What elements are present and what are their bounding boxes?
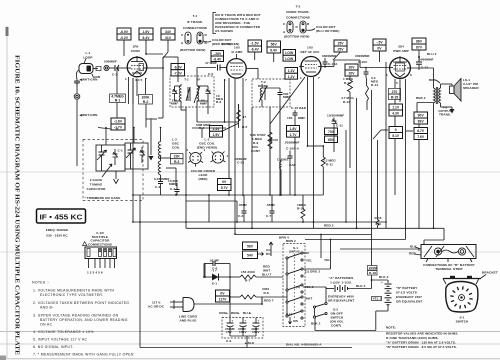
svg-text:▸ BLK: ▸ BLK (244, 341, 255, 345)
vertical wire x186 T1 return (181, 104, 187, 228)
svg-text:.05MF: .05MF (238, 203, 247, 207)
vertical wire x235 V2 cathode (234, 79, 236, 235)
svg-text:-: - (349, 281, 350, 285)
notes block bottom left (32, 281, 134, 357)
svg-text:WHT: WHT (263, 269, 270, 273)
svg-text:-1.7V: -1.7V (114, 126, 123, 130)
voltage box pair 25V (333, 40, 347, 60)
wire switch commons (286, 259, 288, 315)
svg-text:(BOTTOM VIEW): (BOTTOM VIEW) (284, 35, 309, 39)
svg-text:NOTE:: NOTE: (386, 326, 396, 330)
capacitor C-10A 6800MMF (322, 54, 338, 68)
T-1 connector lug B (197, 32, 208, 45)
capacitor .0039MF label (234, 157, 247, 165)
label S-2 on-off switch (330, 308, 344, 328)
note bracket IF trans (213, 13, 261, 34)
voltage box pair 1.8V (287, 126, 300, 138)
B battery label (396, 286, 423, 304)
label RED WHT (263, 265, 270, 273)
choke and cap labels (277, 158, 296, 175)
diode E-1 rectifier (203, 269, 230, 286)
vertical wire x163 screen (158, 58, 164, 118)
bus wire y207 (186, 194, 238, 223)
resistor R-2 100K boxed (139, 95, 153, 105)
label bottom view T-2 (284, 35, 309, 39)
label AC DC arrow (266, 242, 273, 256)
svg-text:6: 6 (410, 73, 412, 77)
scan bottom edge (0, 358, 500, 360)
wire loop lead down (75, 70, 79, 166)
A battery brand label (328, 295, 355, 303)
voltage box pair V4 grid (373, 39, 386, 62)
svg-text:+: + (333, 281, 335, 285)
long vertical wire x357 (356, 98, 358, 229)
svg-text:89V: 89V (418, 120, 425, 124)
svg-text:1.6V: 1.6V (143, 30, 151, 34)
capacitor C-2 500MMF (104, 60, 126, 77)
speaker LS-1 (441, 78, 480, 101)
wire V2 plate to T2 (247, 68, 258, 79)
T-2 connector lug A (283, 21, 293, 34)
svg-text:RESISTOR VALUES ARE INDICAT: RESISTOR VALUES ARE INDICATED IN OHMS. (386, 332, 458, 336)
scan fold line bottom (0, 343, 500, 345)
resistor R-3 22K boxed (168, 154, 183, 164)
svg-text:AS SHOWN: AS SHOWN (215, 29, 233, 33)
svg-text:C-7: C-7 (266, 214, 271, 218)
svg-text:20V: 20V (348, 66, 355, 70)
gang section 1 loop (96, 145, 125, 171)
svg-text:56V: 56V (247, 245, 254, 249)
svg-text:BLU▸: BLU▸ (243, 311, 252, 315)
vertical wire x295 diode load (294, 120, 296, 196)
svg-text:C-6: C-6 (238, 214, 243, 218)
svg-text:C-11: C-11 (336, 124, 343, 128)
resistor R-7 150-2000 (230, 270, 283, 283)
power chassis box left edge (139, 195, 141, 348)
svg-text:OR EQUIVALENT: OR EQUIVALENT (396, 300, 423, 304)
vertical wire x229 V2 pin (228, 78, 230, 196)
antenna loop L-1 (79, 51, 93, 74)
gang section 2 trimmer (140, 147, 145, 163)
svg-text:MMF: MMF (200, 102, 207, 106)
svg-text:PWR AMP: PWR AMP (393, 49, 409, 53)
svg-text:67-1/2 VOLTS: 67-1/2 VOLTS (396, 291, 417, 295)
osc coil end views label (197, 138, 218, 150)
output transformer T-3 (434, 84, 452, 117)
svg-text:COIL: COIL (172, 146, 180, 150)
diode transformer T-2 dashed box (252, 79, 290, 107)
voltage box pair top b (139, 28, 163, 55)
wire V4 cathode down (400, 79, 406, 131)
gang top feed wires (105, 127, 135, 145)
svg-text:TUNING: TUNING (90, 183, 103, 187)
capacitor C-4 (170, 183, 180, 195)
switch link dashed (294, 250, 296, 318)
power chassis box bottom edge (140, 347, 352, 349)
wire det out to V4 (322, 60, 389, 68)
long vertical wire x437 down (433, 103, 435, 228)
node terminal (104, 65, 109, 70)
wire switch to bus (261, 277, 283, 305)
voltage box pair -1.6V left (98, 118, 125, 130)
voltage box pair LOW (283, 50, 296, 62)
svg-text:0V: 0V (222, 180, 227, 184)
svg-text:CONNECTIONS: CONNECTIONS (286, 16, 310, 20)
svg-text:CONNECTIONS: CONNECTIONS (183, 26, 207, 30)
resistor R-5 label (237, 104, 248, 129)
svg-text:BRN 2: BRN 2 (286, 239, 296, 243)
svg-text:+: + (245, 319, 247, 323)
svg-text:4. VOLTAGE TOLERANCE ± 10%: 4. VOLTAGE TOLERANCE ± 10% (33, 330, 94, 334)
wire V1 plate to T1 (148, 57, 178, 82)
switch contact 5 (286, 310, 303, 323)
svg-text:C-10A-A: C-10A-A (286, 147, 300, 151)
wire B battery return (315, 297, 388, 331)
svg-text:R-2: R-2 (143, 100, 149, 104)
svg-text:T-2: T-2 (296, 5, 301, 9)
svg-text:1.5V: 1.5V (213, 133, 221, 137)
staircase wire b (340, 249, 419, 251)
svg-text:* TRIMMERS ON GANG: * TRIMMERS ON GANG (85, 196, 121, 200)
svg-text:C-10: C-10 (237, 161, 244, 165)
label BRN (429, 78, 440, 83)
svg-text:SWITCH: SWITCH (456, 320, 469, 324)
oscillator coil L-2 (158, 128, 180, 182)
T-1 connector lug A (181, 32, 191, 45)
voltage box pair 70V (325, 128, 338, 143)
resistor R-14 3.3MEG (366, 76, 379, 110)
terminal lug (74, 94, 80, 100)
svg-text:FIGURE 10. SCHEMATIC DIAGRAM O: FIGURE 10. SCHEMATIC DIAGRAM OF HS-224 U… (14, 55, 21, 355)
svg-text:15V: 15V (226, 330, 233, 334)
wire C8 junctions (204, 264, 231, 318)
vertical wire x280 T2 cap return (279, 107, 281, 196)
svg-text:1: 1 (300, 76, 302, 80)
osc coil end view right (211, 152, 229, 164)
wire plug to switch (194, 297, 262, 304)
svg-text:6. NO SIGNAL INPUT.: 6. NO SIGNAL INPUT. (33, 345, 74, 349)
label bottom view T-1 (180, 48, 205, 52)
wire A battery to B battery (368, 235, 389, 289)
long vertical wire x420 heater (418, 124, 420, 229)
tube V1 1R5 converter (125, 45, 148, 83)
svg-text:C-12: C-12 (421, 66, 428, 70)
vertical wire x133 V1 cathode (132, 78, 134, 223)
wire T1 to V2 grid (197, 68, 216, 84)
terminal strip caption (423, 263, 476, 271)
label C-1D multiple capacitor connections (83, 231, 112, 246)
S-2 on-off switch contact (311, 312, 327, 325)
svg-text:YEL 2: YEL 2 (373, 297, 382, 301)
svg-text:-6.0V: -6.0V (120, 30, 129, 34)
T-1 primary trimmer cap 130MMF (171, 86, 181, 106)
voltage box pair top a (117, 28, 131, 56)
svg-text:86V: 86V (416, 40, 423, 44)
svg-text:CONT): CONT) (331, 324, 341, 328)
labels ORG RED BLK above C-9 (219, 311, 252, 315)
svg-text:1U5: 1U5 (234, 46, 240, 50)
label BLU 2 (427, 52, 437, 56)
switch S-1 wafer dashed (283, 239, 305, 327)
voltage box pair 56V bold (243, 242, 264, 259)
svg-text:LOOP: LOOP (83, 56, 92, 60)
svg-text:RED▸: RED▸ (231, 311, 240, 315)
T-1 primary winding (179, 84, 181, 104)
bus wire B- y222 (133, 222, 385, 228)
IF frequency box (37, 209, 86, 223)
gang section 1 variable capacitor C-1A (97, 145, 107, 171)
svg-text:C-9: C-9 (226, 339, 231, 343)
voltage box pair 90V (414, 112, 428, 124)
svg-text:MMF: MMF (171, 102, 178, 106)
svg-text:(GRN): (GRN) (222, 42, 231, 46)
wire C9 returns (230, 332, 256, 348)
svg-text:90V: 90V (418, 114, 425, 118)
svg-text:R-13: R-13 (343, 100, 350, 104)
voltage box pair 20V (345, 64, 358, 76)
svg-text:R-3: R-3 (174, 160, 180, 164)
resistor boxes R-16 680 (375, 140, 382, 228)
svg-text:SPEAKER: SPEAKER (463, 86, 479, 90)
svg-text:EVEREADY #467: EVEREADY #467 (396, 295, 422, 299)
svg-text:117V: 117V (219, 298, 227, 302)
svg-text:R-6: R-6 (216, 100, 221, 104)
svg-text:"A" BATTERY DRAIN - 130 MA: "A" BATTERY DRAIN - 130 MA AT 2.8 VOLTS. (386, 341, 456, 345)
svg-text:-0.2V: -0.2V (120, 36, 129, 40)
capacitor C-10 B+D (287, 106, 307, 120)
svg-text:56V: 56V (271, 43, 278, 47)
svg-text:IF: IF (198, 78, 201, 82)
resistor R-10 1MEG (297, 195, 307, 223)
vertical wire x243 V2 pin7 (242, 78, 244, 196)
svg-text:"B" BATTERY: "B" BATTERY (396, 286, 418, 290)
osc coil end view left (186, 148, 206, 167)
svg-text:3000MMF: 3000MMF (355, 54, 370, 58)
svg-text:BRACKET: BRACKET (482, 271, 498, 275)
vertical wire x158 osc top (160, 127, 162, 129)
svg-text:IF • 455 KC: IF • 455 KC (40, 213, 84, 222)
capacitor C-11 10-300MMF (327, 114, 344, 128)
svg-text:RED 2: RED 2 (324, 224, 334, 228)
svg-text:-.26V: -.26V (213, 52, 222, 56)
S-2 second pole (313, 287, 327, 316)
tube V4 3S4 power amplifier (386, 45, 412, 86)
svg-text:NOTES :-: NOTES :- (32, 281, 50, 285)
svg-text:OR EQUIVALENT: OR EQUIVALENT (328, 299, 355, 303)
T-2 return wires (252, 107, 270, 228)
svg-text:1: 1 (125, 77, 127, 81)
voltage box pair V2 screen (267, 41, 281, 62)
svg-text:5. INPUT VOLTAGE 117 V AC: 5. INPUT VOLTAGE 117 V AC (33, 338, 87, 342)
svg-text:(BLU OR PINK): (BLU OR PINK) (316, 29, 339, 33)
svg-text:YEL: YEL (324, 258, 330, 262)
resistor R-6 label (216, 94, 224, 104)
svg-text:CONV: CONV (131, 49, 141, 53)
svg-text:34V: 34V (165, 30, 172, 34)
rotary switch S-1 assembly (446, 282, 478, 324)
svg-text:-8.4V: -8.4V (213, 57, 222, 61)
voltage box pair 0V 5.7V (218, 179, 232, 191)
label BAT arrow (286, 313, 292, 325)
svg-text:7: 7 (318, 76, 320, 80)
label WHT-GRN lower (79, 113, 99, 117)
scan left edge (0, 26, 9, 360)
svg-text:25V: 25V (337, 42, 344, 46)
electrolytic cap 30MF b (251, 318, 260, 335)
T-2 winding (259, 84, 267, 107)
C-1D connector block (85, 247, 117, 275)
svg-text:20V: 20V (348, 72, 355, 76)
svg-text:R-15: R-15 (391, 96, 398, 100)
svg-text:535 - 1620 KC: 535 - 1620 KC (46, 234, 68, 238)
svg-text:C-10A: C-10A (328, 62, 338, 66)
T-1 secondary winding (194, 83, 200, 104)
svg-text:7: 7 (245, 78, 247, 82)
svg-text:5: 5 (396, 81, 398, 85)
volume control R-9 (250, 124, 278, 160)
svg-text:1R5: 1R5 (133, 45, 139, 49)
voltage box pair osc (210, 124, 239, 138)
svg-text:R-12: R-12 (344, 81, 351, 85)
svg-text:TERMINAL STRIP: TERMINAL STRIP (435, 267, 462, 271)
svg-text:DIAL NO. 64D806935-A: DIAL NO. 64D806935-A (286, 343, 322, 347)
svg-text:C-1: C-1 (118, 149, 123, 153)
bus wire y229 (186, 227, 444, 244)
gang section 1 trimmer (113, 149, 123, 166)
svg-text:3S4: 3S4 (398, 45, 404, 49)
resistor R-15 270 boxed (389, 89, 401, 100)
svg-text:BLU 2: BLU 2 (427, 52, 437, 56)
scan fold line lower (0, 331, 500, 333)
svg-text:0: 0 (395, 128, 397, 132)
svg-text:R-5: R-5 (242, 125, 247, 129)
svg-text:1: 1 (227, 154, 229, 158)
resistor R-4 label (196, 123, 211, 130)
svg-text:YEL: YEL (306, 259, 312, 263)
label dial number (286, 343, 322, 347)
svg-text:T-1: T-1 (184, 78, 189, 82)
voltage box pair V2 grid (211, 51, 224, 62)
wire det cathode to vol (269, 77, 305, 196)
wire loop to grid (93, 67, 101, 71)
svg-text:8.7V: 8.7V (417, 129, 425, 133)
resistor R-1 4.7MEG boxed (110, 94, 126, 103)
switch contact 3 (286, 284, 330, 293)
svg-text:5.7V: 5.7V (221, 186, 229, 190)
T-2 diode trans connections label (286, 5, 310, 20)
svg-text:1: 1 (204, 148, 206, 152)
svg-text:C-10 B&D: C-10 B&D (291, 106, 307, 110)
svg-text:"A" BATTERIES: "A" BATTERIES (329, 276, 354, 280)
svg-text:54V: 54V (247, 254, 254, 258)
T-2 capacitor 300MMF (262, 88, 290, 107)
svg-text:4.3V: 4.3V (392, 112, 400, 116)
svg-text:10/300MMF: 10/300MMF (327, 114, 344, 118)
resistor R-12 1MEG (343, 76, 354, 98)
svg-text:BRN: BRN (429, 78, 437, 82)
svg-text:ELECTRONIC TYPE VOLTMETER.: ELECTRONIC TYPE VOLTMETER. (40, 293, 104, 297)
svg-text:LOW: LOW (285, 51, 294, 55)
svg-text:BLK: BLK (410, 245, 417, 249)
svg-text:(3): (3) (296, 285, 300, 289)
svg-text:R-14: R-14 (371, 83, 378, 87)
capacitor C-8 .05MF (204, 259, 230, 278)
svg-text:3. UPPER VOLTAGE READING: 3. UPPER VOLTAGE READING OBTAINED ON (33, 314, 119, 318)
electrolytic cap 30MF a (238, 318, 247, 335)
note block bottom right (386, 326, 458, 350)
svg-text:R-8: R-8 (264, 291, 269, 295)
label freq range (46, 228, 69, 238)
long vertical wire x385 (385, 62, 387, 228)
svg-text:-1.5V: -1.5V (251, 42, 260, 46)
svg-text:(RED): (RED) (198, 177, 207, 181)
voltage box pair 86V (412, 38, 426, 58)
svg-text:87V: 87V (416, 46, 423, 50)
svg-text:BATTERY OPERATION, AND LOWER: BATTERY OPERATION, AND LOWER READING (40, 318, 128, 322)
svg-text:DET AF AVC: DET AF AVC (300, 50, 320, 54)
svg-text:25V: 25V (337, 48, 344, 52)
T-2 connector lug B (296, 21, 311, 33)
capacitor C-7 .05MF (266, 195, 275, 222)
svg-text:C-5: C-5 (208, 72, 213, 76)
A batteries label (329, 276, 354, 285)
label color dot blu or pink (306, 25, 339, 33)
svg-text:5000MMF: 5000MMF (419, 58, 434, 62)
figure caption rotated (14, 55, 21, 355)
gang ground arrow (114, 171, 119, 184)
voltage box pair top c (161, 28, 175, 58)
resistor R-8 3300 (230, 287, 287, 303)
capacitor C-6 .05MF (238, 195, 247, 222)
svg-text:(BOTTOM VIEW): (BOTTOM VIEW) (180, 48, 205, 52)
svg-text:GRN: GRN (93, 75, 101, 79)
svg-text:7. * MEASUREMENT MADE WITH: 7. * MEASUREMENT MADE WITH GANG FULLY OP… (33, 353, 134, 357)
svg-text:200M: 200M (369, 266, 377, 270)
svg-text:IF AMP: IF AMP (232, 50, 243, 54)
svg-text:CONNECTIONS: CONNECTIONS (88, 242, 112, 246)
svg-text:ORG▸: ORG▸ (219, 311, 228, 315)
svg-text:FREQ. RANGE: FREQ. RANGE (46, 228, 69, 232)
label color dot red or green (203, 38, 239, 46)
svg-text:RED 7: RED 7 (264, 299, 274, 303)
vertical wire x141 (116, 67, 146, 130)
wire V4 plate to output transformer (412, 68, 434, 112)
svg-text:+: + (232, 319, 234, 323)
svg-text:150 2000: 150 2000 (241, 270, 255, 274)
IF transformer T-1 dashed box (170, 76, 214, 107)
svg-text:1.3V: 1.3V (288, 69, 296, 73)
svg-text:-1.6V: -1.6V (114, 120, 123, 124)
voltage box pair 0V 117V (216, 290, 230, 302)
svg-text:CONT: CONT (251, 149, 260, 153)
label GRN V2 (222, 42, 231, 46)
svg-text:0V: 0V (377, 47, 382, 51)
scan fold line mid (0, 251, 500, 253)
B battery symbol (381, 280, 392, 311)
svg-text:"B" BATTERY DRAIN - 8.5 MA: "B" BATTERY DRAIN - 8.5 MA AT 67.5 VOLTS… (386, 345, 457, 349)
svg-text:R-7: R-7 (245, 279, 250, 283)
svg-text:5.1V: 5.1V (392, 134, 400, 138)
svg-text:47: 47 (243, 115, 247, 119)
vertical wire x395 (394, 79, 396, 195)
switch contact 4 (286, 296, 312, 305)
electrolytic cap 250MF (225, 318, 235, 335)
svg-text:.05MF: .05MF (266, 203, 275, 207)
resistor R-11 2.2MEG (323, 143, 336, 167)
tube V3 1U5 det af avc (299, 46, 322, 81)
bracket pointer (481, 271, 498, 279)
capacitor 6000MMF padder (154, 177, 178, 195)
